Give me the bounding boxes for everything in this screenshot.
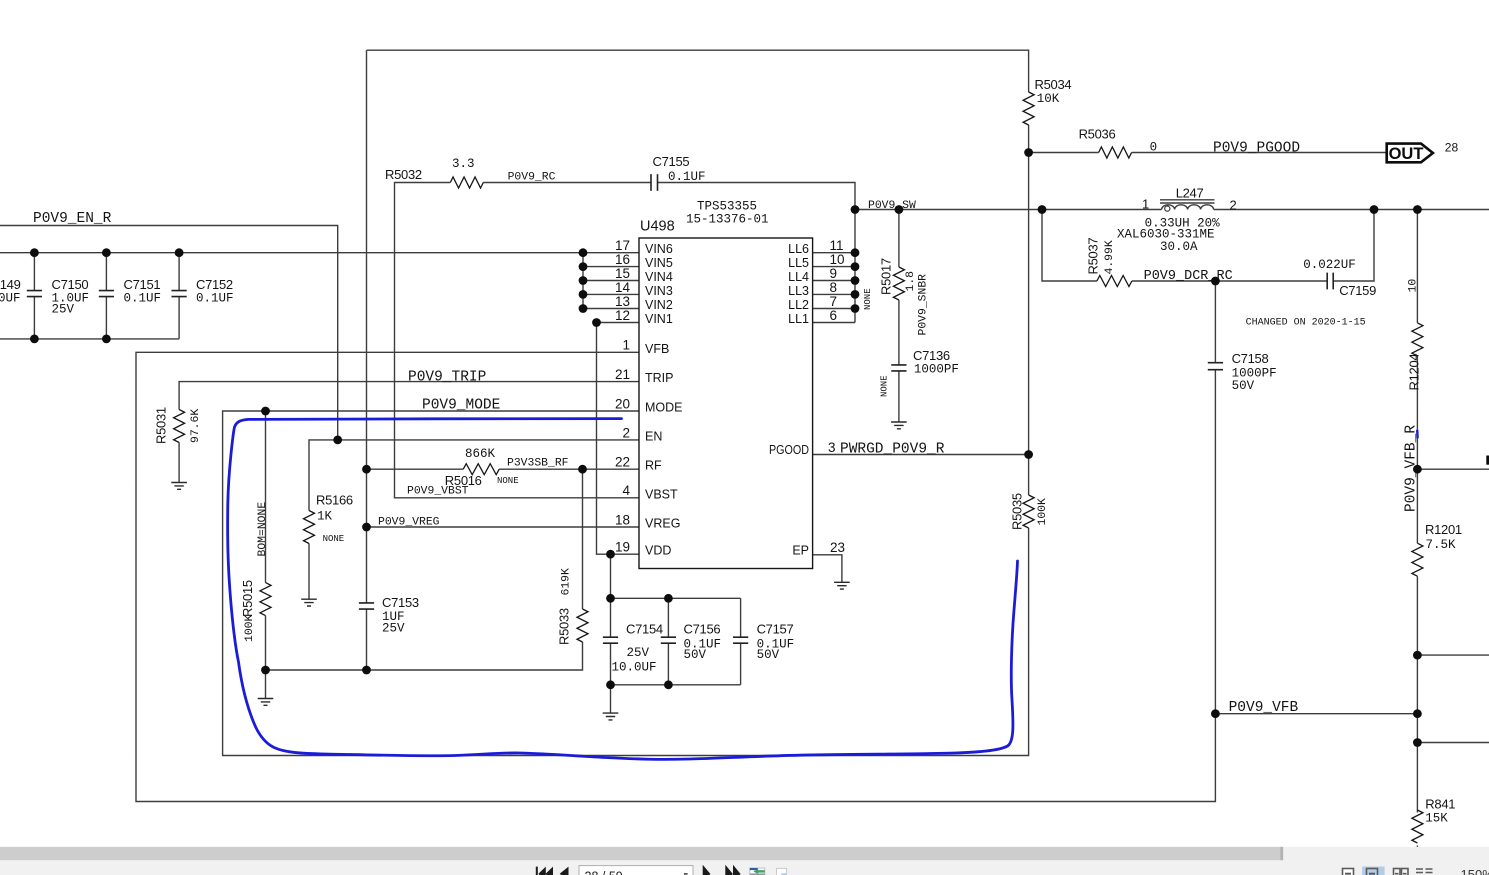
svg-text:P0V9_VFB: P0V9_VFB — [1229, 700, 1299, 716]
svg-text:28 / 59: 28 / 59 — [585, 870, 623, 875]
svg-text:13: 13 — [615, 294, 630, 309]
svg-text:P0V9_TRIP: P0V9_TRIP — [408, 370, 486, 386]
svg-text:C7153: C7153 — [382, 595, 419, 610]
svg-text:VIN3: VIN3 — [645, 284, 673, 298]
svg-text:10UF: 10UF — [0, 292, 21, 306]
svg-text:28: 28 — [1445, 141, 1459, 155]
svg-text:P0V9_SNBR: P0V9_SNBR — [918, 274, 930, 336]
svg-text:C7152: C7152 — [196, 277, 233, 292]
svg-text:C7154: C7154 — [626, 622, 663, 637]
svg-text:C7136: C7136 — [913, 348, 950, 363]
svg-text:97.6K: 97.6K — [190, 409, 202, 443]
svg-text:15: 15 — [615, 266, 630, 281]
svg-text:0.1UF: 0.1UF — [196, 292, 234, 306]
svg-text:R5031: R5031 — [154, 407, 169, 444]
svg-text:VFB: VFB — [645, 342, 669, 356]
svg-text:MODE: MODE — [645, 401, 683, 415]
svg-text:R5032: R5032 — [385, 167, 422, 182]
svg-text:LL3: LL3 — [788, 284, 809, 298]
svg-text:12: 12 — [615, 308, 630, 323]
svg-text:R1201: R1201 — [1425, 522, 1462, 537]
svg-text:NONE: NONE — [880, 375, 890, 397]
svg-text:P0V9_DCR_RC: P0V9_DCR_RC — [1144, 269, 1233, 284]
svg-text:NONE: NONE — [863, 288, 873, 310]
svg-text:7.5K: 7.5K — [1426, 538, 1457, 552]
svg-text:VREG: VREG — [645, 517, 680, 531]
svg-text:100K: 100K — [244, 614, 256, 642]
svg-text:C7159: C7159 — [1339, 283, 1376, 298]
svg-text:NONE: NONE — [497, 476, 519, 486]
svg-text:7: 7 — [830, 294, 838, 309]
svg-text:1.8: 1.8 — [905, 271, 917, 292]
svg-text:P0V9_PGOOD: P0V9_PGOOD — [1213, 141, 1300, 157]
svg-text:23: 23 — [830, 540, 845, 555]
svg-text:CHANGED ON 2020-1-15: CHANGED ON 2020-1-15 — [1246, 318, 1366, 329]
svg-text:19: 19 — [615, 540, 630, 555]
svg-text:C7157: C7157 — [757, 622, 794, 637]
svg-text:0.1UF: 0.1UF — [668, 170, 706, 184]
svg-text:LL5: LL5 — [788, 256, 809, 270]
svg-text:9: 9 — [830, 266, 838, 281]
svg-text:VIN1: VIN1 — [645, 312, 673, 326]
svg-text:R5033: R5033 — [557, 608, 572, 645]
svg-text:PWRGD_P0V9_R: PWRGD_P0V9_R — [840, 442, 945, 458]
svg-text:VIN6: VIN6 — [645, 242, 673, 256]
svg-text:619K: 619K — [561, 568, 573, 596]
svg-text:1: 1 — [1142, 196, 1149, 211]
svg-text:C7151: C7151 — [124, 277, 161, 292]
svg-text:25V: 25V — [382, 622, 405, 636]
svg-text:VDD: VDD — [645, 544, 671, 558]
svg-text:P0V9_MODE: P0V9_MODE — [422, 398, 500, 414]
svg-text:22: 22 — [615, 455, 630, 470]
svg-text:10: 10 — [830, 252, 845, 267]
svg-text:PGOOD: PGOOD — [769, 443, 809, 457]
svg-text:3.3: 3.3 — [452, 157, 475, 171]
svg-text:25V: 25V — [52, 303, 75, 317]
svg-text:U498: U498 — [640, 219, 675, 235]
svg-text:150%: 150% — [1461, 867, 1489, 875]
svg-text:R5037: R5037 — [1086, 238, 1101, 275]
svg-text:P0V9_VREG: P0V9_VREG — [378, 517, 440, 529]
svg-text:TPS53355: TPS53355 — [697, 200, 757, 214]
svg-text:EN: EN — [645, 429, 662, 443]
svg-text:P3V3SB_RF: P3V3SB_RF — [507, 458, 569, 470]
svg-text:8: 8 — [830, 280, 838, 295]
svg-text:R1204: R1204 — [1407, 354, 1422, 391]
svg-text:P0V9_SW: P0V9_SW — [868, 200, 916, 212]
svg-text:LL1: LL1 — [788, 312, 809, 326]
svg-text:VIN5: VIN5 — [645, 256, 673, 270]
svg-text:VIN4: VIN4 — [645, 270, 673, 284]
svg-text:C7149: C7149 — [0, 277, 21, 292]
svg-text:50V: 50V — [1232, 379, 1255, 393]
svg-text:3: 3 — [828, 440, 836, 455]
svg-text:P0V9_EN_R: P0V9_EN_R — [33, 211, 112, 227]
svg-text:2: 2 — [622, 425, 630, 440]
svg-text:11: 11 — [830, 238, 844, 253]
svg-text:0.022UF: 0.022UF — [1303, 258, 1356, 272]
svg-text:OUT: OUT — [1389, 145, 1424, 163]
svg-text:EP: EP — [792, 544, 809, 558]
svg-text:R5017: R5017 — [879, 258, 894, 295]
svg-text:14: 14 — [615, 280, 631, 295]
svg-text:RF: RF — [645, 459, 662, 473]
svg-text:1000PF: 1000PF — [914, 363, 959, 377]
svg-text:1K: 1K — [317, 510, 333, 524]
svg-text:LL2: LL2 — [788, 298, 809, 312]
svg-text:10K: 10K — [1037, 92, 1060, 106]
svg-text:15K: 15K — [1425, 811, 1448, 825]
svg-text:50V: 50V — [684, 648, 707, 662]
svg-text:1: 1 — [622, 338, 630, 353]
svg-text:0: 0 — [1150, 141, 1158, 155]
svg-text:VIN2: VIN2 — [645, 298, 673, 312]
svg-text:R5015: R5015 — [240, 580, 255, 617]
svg-text:18: 18 — [615, 512, 630, 527]
svg-text:10: 10 — [1408, 279, 1420, 293]
svg-text:R5036: R5036 — [1079, 127, 1116, 142]
svg-text:C7158: C7158 — [1232, 351, 1269, 366]
svg-text:25V: 25V — [627, 646, 650, 660]
svg-text:50V: 50V — [757, 648, 780, 662]
svg-text:2: 2 — [1230, 198, 1237, 213]
svg-text:LL4: LL4 — [788, 270, 809, 284]
svg-text:C7155: C7155 — [653, 154, 690, 169]
svg-text:6: 6 — [830, 308, 838, 323]
svg-text:VBST: VBST — [645, 487, 678, 501]
svg-text:100K: 100K — [1037, 498, 1049, 526]
svg-text:P0V9_RC: P0V9_RC — [508, 172, 556, 184]
svg-text:LL6: LL6 — [788, 242, 809, 256]
svg-text:20: 20 — [615, 396, 630, 411]
svg-text:30.0A: 30.0A — [1160, 240, 1198, 254]
svg-text:P0V9_VBST: P0V9_VBST — [407, 486, 469, 498]
svg-text:C7150: C7150 — [52, 277, 89, 292]
svg-text:BOM=NONE: BOM=NONE — [257, 502, 269, 557]
svg-text:C7156: C7156 — [684, 622, 721, 637]
svg-text:0.1UF: 0.1UF — [124, 292, 162, 306]
svg-text:4: 4 — [622, 483, 630, 498]
svg-text:16: 16 — [615, 252, 630, 267]
svg-text:4.99K: 4.99K — [1104, 240, 1116, 274]
svg-text:R5034: R5034 — [1035, 77, 1072, 92]
svg-text:10.0UF: 10.0UF — [612, 661, 657, 675]
svg-text:R841: R841 — [1425, 796, 1455, 811]
svg-text:R5035: R5035 — [1010, 493, 1025, 530]
svg-text:866K: 866K — [465, 447, 496, 461]
svg-text:21: 21 — [615, 367, 630, 382]
svg-text:R5166: R5166 — [316, 493, 353, 508]
svg-text:TRIP: TRIP — [645, 371, 673, 385]
svg-text:NONE: NONE — [323, 534, 345, 544]
svg-text:17: 17 — [615, 238, 630, 253]
svg-text:L247: L247 — [1176, 186, 1204, 201]
svg-text:15-13376-01: 15-13376-01 — [686, 213, 769, 227]
